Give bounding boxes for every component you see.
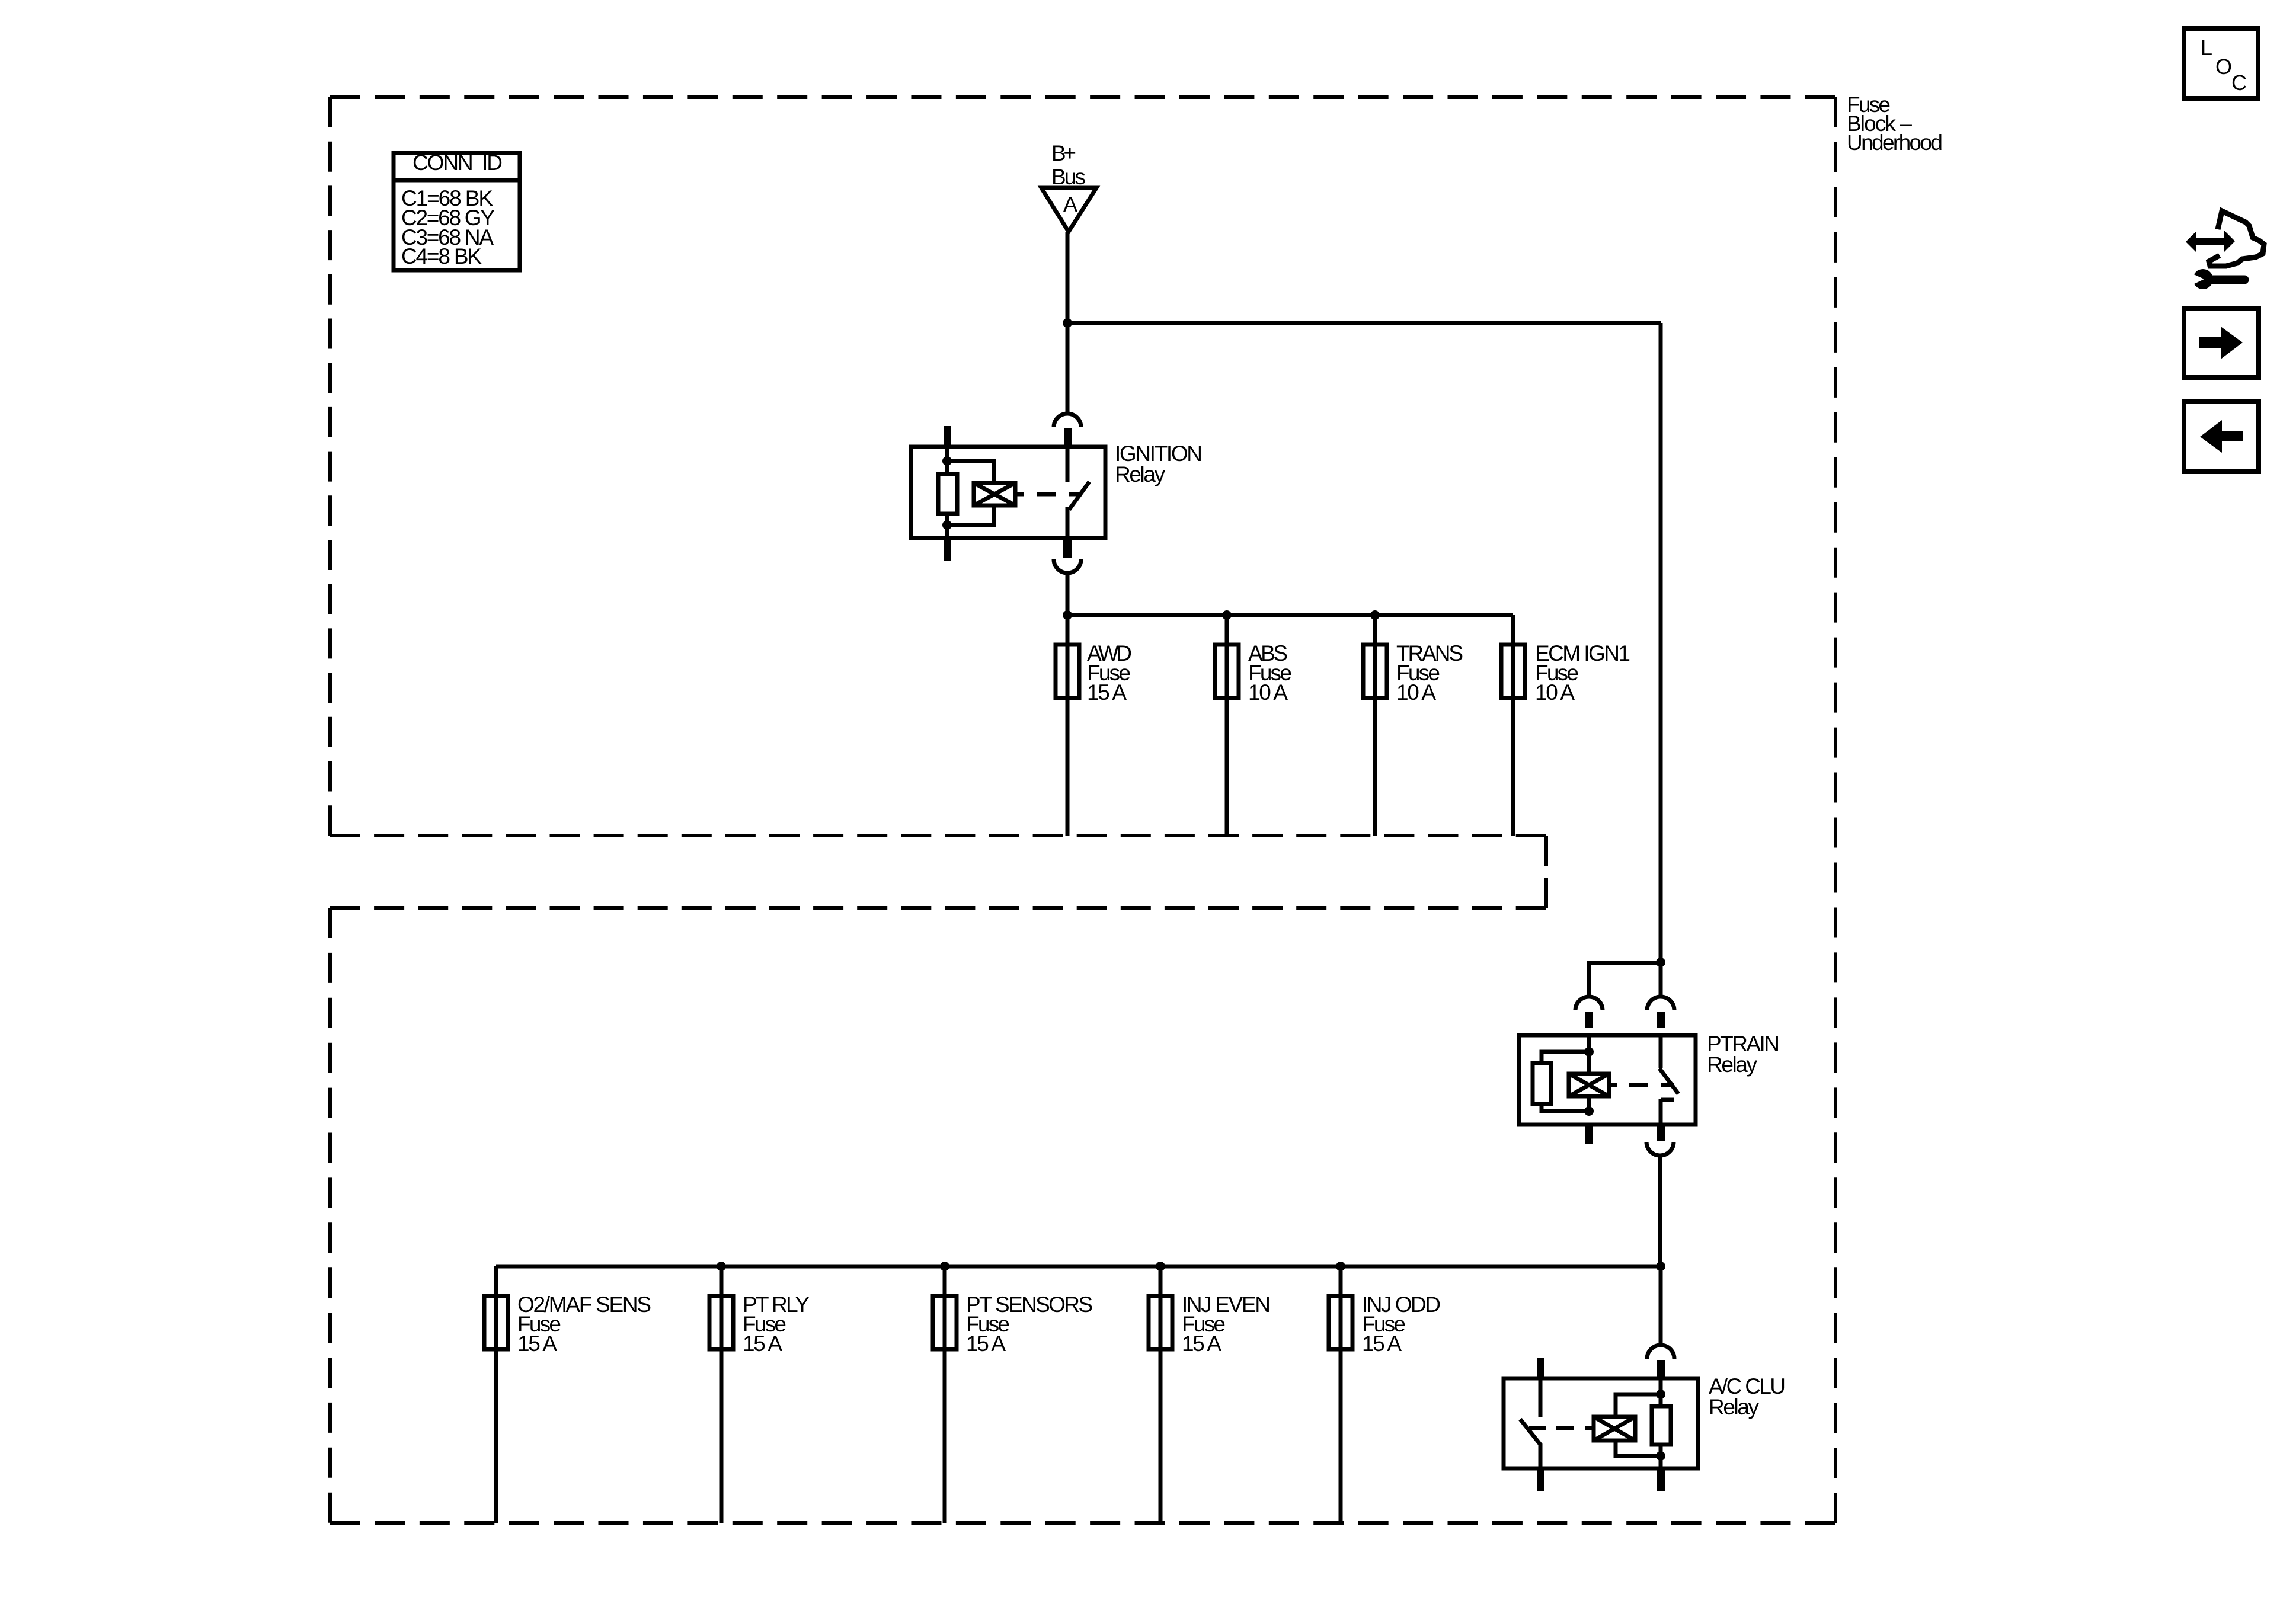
svg-text:10 A: 10 A	[1396, 680, 1436, 705]
wire TRANS fuse column	[1373, 615, 1377, 836]
junction PT RLY tap	[717, 1262, 726, 1271]
fuse PT SENSORS 15A	[933, 1292, 1093, 1356]
junction ignition fuse bus	[1063, 610, 1072, 620]
relay box PTRAIN	[1519, 1035, 1696, 1125]
wire ignition output down	[1066, 573, 1070, 615]
wire A/C CLU switch upper contact	[1539, 1378, 1543, 1417]
wire PTRAIN coil pin	[1587, 1035, 1591, 1111]
svg-text:C4=8 BK: C4=8 BK	[401, 244, 482, 268]
wire ignition coil branch top	[947, 461, 994, 483]
icon forward arrow box	[2184, 308, 2259, 377]
junction bottom bus right	[1656, 1262, 1665, 1271]
wire PTRAIN coil actuator stub	[1609, 1083, 1617, 1087]
IGNITION relay	[911, 414, 1203, 573]
wire INJ EVEN fuse column	[1159, 1266, 1163, 1523]
fuse block underhood dashed boundary right edge	[1834, 97, 1837, 1523]
A/C CLU relay	[1504, 1266, 1786, 1491]
label Fuse Block - Underhood	[1847, 92, 1943, 155]
svg-text:A: A	[1063, 192, 1077, 216]
junction A/C CLU coil bottom	[1656, 1451, 1665, 1461]
svg-text:15 A: 15 A	[1182, 1331, 1221, 1356]
pin stub A/C CLU switch pin top	[1537, 1358, 1544, 1378]
icon service info wrench	[2186, 211, 2264, 289]
wire right feed down to PTRAIN	[1659, 323, 1663, 962]
fuse block underhood dashed boundary top edge	[330, 95, 1835, 99]
fuse block underhood dashed divider lower	[330, 906, 1546, 910]
pin stub ignition relay coil pin top	[944, 426, 951, 447]
wire PTRAIN switch feed	[1659, 962, 1663, 997]
wire PTRAIN output down to bottom bus	[1658, 1156, 1662, 1266]
svg-text:10 A: 10 A	[1248, 680, 1288, 705]
pin stub A/C CLU right pin top	[1657, 1360, 1665, 1378]
svg-text:Underhood: Underhood	[1847, 130, 1943, 155]
wire PTRAIN switch lower contact	[1661, 1099, 1674, 1125]
wire PTRAIN coil branch	[1589, 963, 1661, 997]
junction PTRAIN feed split	[1656, 958, 1665, 967]
wire ignition coil pin	[945, 447, 949, 538]
svg-text:15 A: 15 A	[966, 1331, 1006, 1356]
junction ignition coil top	[942, 456, 952, 466]
relay box A/C CLU	[1504, 1378, 1698, 1468]
junction PTRAIN coil bottom	[1584, 1106, 1594, 1116]
connector half above PTRAIN coil pin	[1575, 997, 1603, 1010]
junction INJ EVEN tap	[1156, 1262, 1165, 1271]
relay box IGNITION	[911, 447, 1105, 538]
pin stub ignition coil pin bottom	[944, 538, 951, 561]
fuse block underhood dashed divider upper	[330, 834, 1546, 837]
wire ECM IGN1 fuse column	[1511, 615, 1515, 836]
wire A/C CLU resistor pin	[1659, 1378, 1663, 1468]
junction ignition coil bottom	[942, 520, 952, 530]
wire PTRAIN actuator dashed	[1629, 1083, 1674, 1087]
svg-text:10 A: 10 A	[1535, 680, 1575, 705]
svg-text:15 A: 15 A	[517, 1331, 557, 1356]
coil A/C CLU relay	[1594, 1417, 1635, 1441]
connector half below PTRAIN switch pin	[1646, 1142, 1674, 1156]
svg-text:B+: B+	[1051, 141, 1076, 165]
wire ignition coil branch bottom	[947, 505, 994, 525]
wire AWD fuse column	[1066, 615, 1070, 836]
fuse ECM IGN1 10A	[1501, 641, 1630, 705]
wire actuator dashed	[1037, 492, 1082, 497]
svg-text:Relay: Relay	[1709, 1395, 1760, 1419]
wire PTRAIN resistor branch top	[1542, 1052, 1589, 1063]
wire PTRAIN resistor branch bottom	[1542, 1104, 1589, 1111]
wire A/C CLU actuator dashed	[1529, 1426, 1574, 1430]
svg-text:CONN ID: CONN ID	[412, 151, 503, 175]
fuse AWD 15A	[1056, 641, 1132, 705]
wire ABS fuse column	[1225, 615, 1229, 836]
resistor A/C CLU relay	[1652, 1406, 1671, 1445]
connector half above A/C CLU pin	[1647, 1345, 1674, 1359]
resistor PTRAIN relay	[1533, 1063, 1551, 1104]
fuse O2/MAF SENS 15A	[484, 1292, 651, 1356]
wire A/C CLU coil branch bottom	[1616, 1441, 1661, 1456]
junction INJ ODD tap	[1336, 1262, 1345, 1271]
pin stub A/C CLU right pin bottom	[1657, 1468, 1665, 1491]
coil ignition relay	[974, 483, 1015, 505]
PTRAIN relay	[1519, 958, 1780, 1156]
wire A/C CLU coil branch top	[1616, 1394, 1661, 1417]
junction ABS tap	[1222, 610, 1232, 620]
junction PTRAIN coil top	[1584, 1047, 1594, 1057]
wire B+ feed down	[1066, 232, 1070, 323]
wire A/C CLU feed down	[1659, 1266, 1663, 1345]
icon back arrow box	[2184, 402, 2259, 472]
wire ignition switch upper contact	[1066, 447, 1070, 482]
svg-text:Bus: Bus	[1051, 165, 1086, 189]
pin stub ignition relay pin 30	[1064, 428, 1072, 446]
wire PT SENSORS fuse column	[943, 1266, 947, 1523]
wire PT RLY fuse column	[720, 1266, 724, 1523]
junction B+ bus split	[1063, 318, 1072, 328]
pin stub ignition switch pin bottom	[1063, 538, 1072, 558]
pin stub PTRAIN coil pin bottom	[1585, 1125, 1593, 1144]
svg-text:C: C	[2231, 71, 2247, 95]
junction A/C CLU coil top	[1656, 1390, 1665, 1399]
switch blade A/C CLU relay	[1520, 1419, 1541, 1445]
fuse TRANS 10A	[1363, 641, 1463, 705]
coil PTRAIN relay	[1569, 1074, 1609, 1096]
svg-text:Relay: Relay	[1115, 462, 1166, 486]
wire ignition switch lower contact	[1066, 507, 1070, 538]
connector half above ignition relay switch pin	[1054, 414, 1081, 427]
wire A/C CLU coil actuator stub	[1585, 1426, 1594, 1430]
CONN ID table	[394, 151, 520, 270]
pin stub PTRAIN switch pin bottom	[1657, 1125, 1665, 1141]
svg-text:15 A: 15 A	[743, 1331, 782, 1356]
wire INJ ODD fuse column	[1339, 1266, 1343, 1523]
fuse block underhood dashed divider vertical	[1544, 836, 1548, 908]
svg-text:15 A: 15 A	[1362, 1331, 1402, 1356]
wire bottom fuse bus	[496, 1265, 1661, 1269]
node A B+ Bus power triangle	[1041, 141, 1096, 232]
svg-text:15 A: 15 A	[1087, 680, 1127, 705]
fuse INJ ODD 15A	[1329, 1292, 1441, 1356]
wire B+ down to ignition relay connector	[1066, 323, 1070, 413]
wire coil actuator stub	[1015, 492, 1024, 497]
switch blade PTRAIN relay	[1659, 1068, 1678, 1094]
connector half above PTRAIN switch pin	[1647, 997, 1674, 1010]
fuse ABS 10A	[1215, 641, 1292, 705]
fuse block underhood dashed boundary bottom edge	[330, 1521, 1835, 1525]
resistor ignition relay	[938, 474, 957, 514]
fuse INJ EVEN 15A	[1149, 1292, 1271, 1356]
svg-text:Relay: Relay	[1707, 1052, 1758, 1077]
wire A/C CLU switch lower contact	[1539, 1444, 1543, 1468]
junction TRANS tap	[1370, 610, 1380, 620]
fuse block underhood dashed boundary left edge lower	[328, 908, 332, 1523]
junction PT SENSORS tap	[940, 1262, 949, 1271]
fuse block underhood dashed boundary left edge upper	[328, 97, 332, 836]
pin stub A/C CLU switch pin bottom	[1537, 1468, 1544, 1491]
pin stub PTRAIN coil pin top	[1585, 1012, 1593, 1028]
wire B+ bus horizontal to right	[1067, 321, 1661, 325]
fuse PT RLY 15A	[709, 1292, 810, 1356]
wire PTRAIN switch upper contact	[1659, 1035, 1663, 1068]
connector half below ignition relay	[1054, 559, 1081, 573]
svg-text:L: L	[2201, 36, 2212, 60]
wire O2/MAF SENS fuse column	[494, 1266, 498, 1523]
switch blade ignition relay	[1069, 482, 1089, 510]
wire top fuse bus	[1067, 613, 1513, 617]
pin stub PTRAIN switch pin top	[1657, 1012, 1665, 1028]
icon LOC box	[2184, 28, 2258, 98]
svg-text:O: O	[2215, 55, 2232, 79]
